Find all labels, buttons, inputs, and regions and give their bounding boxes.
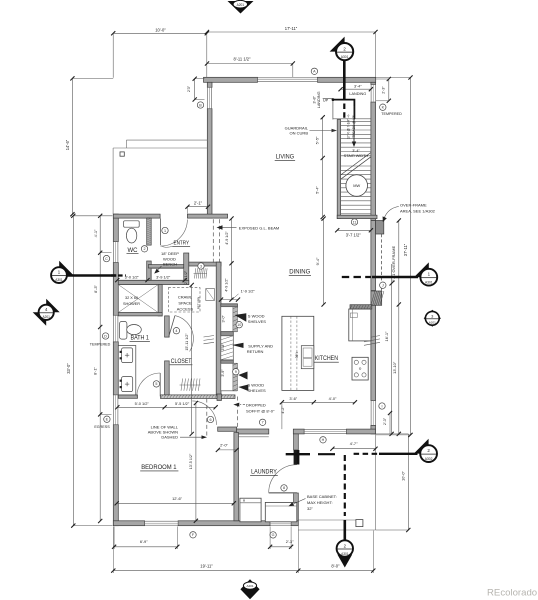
window F: bedroom bottom y-wall x145-178 (145, 521, 179, 525)
svg-text:G: G (272, 533, 275, 537)
window C: left wall y242-262 (114, 242, 118, 263)
svg-text:A201: A201 (42, 315, 50, 319)
svg-text:ACCESS: ACCESS (177, 306, 194, 311)
wall: bath bottom y=395 (118, 395, 137, 398)
svg-text:5: 5 (155, 382, 157, 386)
grid bubble F (190, 532, 196, 538)
wall: stair bottom y=215 (337, 215, 377, 218)
door bubble 4 (173, 328, 179, 334)
window: top wall living x257-317 (258, 78, 318, 82)
svg-text:4: 4 (175, 329, 177, 333)
svg-text:C: C (105, 257, 108, 261)
svg-text:36"±: 36"± (295, 352, 299, 359)
chase separator wall 2 (221, 360, 234, 363)
door bubble 5 (153, 381, 159, 387)
svg-text:DASHED: DASHED (161, 435, 178, 440)
door bubble 6 (207, 416, 213, 422)
svg-text:RETURN: RETURN (197, 297, 201, 310)
svg-text:3'-8": 3'-8" (312, 95, 316, 103)
svg-text:A301: A301 (55, 278, 63, 282)
svg-text:6: 6 (209, 418, 211, 422)
fixture: bath toilet (120, 322, 127, 340)
svg-text:SHELVES: SHELVES (248, 319, 266, 324)
return duct at chase (206, 289, 215, 301)
wall: WC top right seg + entry stub (187, 214, 227, 218)
svg-text:CRAWL: CRAWL (178, 294, 193, 299)
stair landing outline (323, 98, 333, 100)
svg-text:12'-6": 12'-6" (172, 496, 183, 501)
stair treads upper flight (341, 120, 371, 122)
svg-text:ON CURB: ON CURB (290, 130, 309, 135)
fixture: shower 32x60 with X (118, 285, 158, 313)
dim column chase x=231 (231, 219, 233, 300)
section marker 2/A301 bottom (337, 555, 352, 568)
svg-text:32 X 60: 32 X 60 (125, 296, 138, 300)
svg-text:17 R @ 7-1/4" +/-: 17 R @ 7-1/4" +/- (347, 114, 351, 139)
dim line: 8'-11 1/2 top (207, 63, 293, 65)
svg-text:TREADS @ 12": TREADS @ 12" (352, 115, 356, 138)
svg-text:SPACE: SPACE (178, 300, 192, 305)
wall: bench y=265 (148, 265, 183, 268)
wall: laundry top y=427 (218, 427, 237, 431)
dim column left x=100 (99, 216, 101, 521)
window D tempered: left wall y315-342 (114, 315, 118, 342)
exposed GL beam dashed pair (212, 219, 214, 263)
grid bubble D (102, 333, 108, 339)
svg-text:OVER-FRAME: OVER-FRAME (400, 202, 427, 207)
door 6: bedroom door (192, 401, 216, 425)
fixture: bath vanity counter (118, 346, 136, 395)
svg-text:8: 8 (283, 486, 285, 490)
svg-text:TEMPERED: TEMPERED (381, 112, 402, 116)
wall: bottom exterior y=521 (113, 521, 144, 526)
door bubble 1 (162, 227, 168, 233)
wall: bench vertical x=184 (184, 253, 189, 285)
svg-text:1'-9 1/2": 1'-9 1/2" (241, 289, 256, 294)
grid bubble I (379, 403, 385, 409)
svg-text:8'-3": 8'-3" (93, 285, 98, 293)
stair direction arrow (353, 106, 355, 143)
grid bubble G (270, 532, 276, 538)
elevation marker 5/A201 top (228, 1, 254, 14)
dim: 13'-5 1/2 bedroom vertical (195, 403, 197, 521)
over-frame dashed outer line (380, 234, 382, 291)
shelf unit upper (221, 307, 237, 332)
svg-text:SHELVES: SHELVES (248, 388, 266, 393)
svg-text:LAUNDRY: LAUNDRY (251, 469, 277, 476)
svg-text:CLOSET: CLOSET (171, 358, 192, 365)
wall: top exterior (living/stair), y=77 with window gap (204, 77, 258, 82)
over-frame corner block (376, 221, 384, 235)
bubble 11 (351, 219, 357, 225)
svg-text:17'-11": 17'-11" (285, 26, 298, 31)
svg-text:13'-10": 13'-10" (392, 361, 397, 374)
grid bubble J (380, 282, 386, 288)
svg-text:2: 2 (143, 247, 145, 251)
svg-text:6'-9": 6'-9" (140, 539, 148, 544)
section line 2/A302 laundry jog (286, 453, 310, 455)
svg-text:4'-7": 4'-7" (350, 441, 358, 446)
elevation marker 4/A201 left (46, 299, 60, 313)
porch post square (356, 520, 363, 527)
bubble 10 (236, 322, 242, 328)
dim: 2'-3 rotated right wall top (388, 79, 390, 101)
fixture: vanity sink 1 (122, 348, 133, 363)
svg-text:DINING: DINING (289, 268, 310, 275)
svg-text:2'-0": 2'-0" (220, 442, 228, 447)
grid bubble A (311, 68, 317, 74)
dim: 5'-5 and 5'-4 stair left (322, 117, 324, 217)
kitchen counter / fridge right (349, 309, 371, 341)
dim: 3'-7 1/2 below stairs (337, 229, 371, 231)
door bubble 2 (141, 246, 147, 252)
washer (240, 498, 261, 522)
svg-text:5'-5 1/2": 5'-5 1/2" (175, 401, 190, 406)
window J hatched: right wall y291-305 (371, 291, 382, 305)
chase top cap wall (221, 304, 238, 308)
svg-text:A302: A302 (425, 457, 433, 461)
crawl space access dashed box (168, 288, 200, 312)
dimension tick marks (70, 30, 412, 573)
guardrail on curb thick rail (332, 98, 335, 101)
svg-text:LANDING: LANDING (317, 91, 321, 108)
svg-text:WOOD: WOOD (163, 256, 176, 261)
svg-text:MW: MW (353, 183, 360, 188)
dim: 2'-3 right near window I (389, 413, 391, 434)
svg-text:2'-3": 2'-3" (286, 539, 294, 544)
wall: bath-closet x=165 upper (165, 316, 170, 337)
svg-text:3'-0": 3'-0" (222, 314, 226, 322)
svg-text:4'-2": 4'-2" (281, 406, 285, 414)
line of wall above dashed (bedroom) (206, 399, 208, 438)
svg-text:BEDROOM 1: BEDROOM 1 (141, 464, 177, 471)
svg-text:A301: A301 (341, 55, 349, 59)
island sink (301, 346, 314, 369)
dim: 15'-11 1/2 rotated closet (191, 285, 193, 434)
door 1: entry swing (159, 219, 161, 246)
laundry base cabinet (265, 502, 297, 521)
section marker 1/A301 left (59, 261, 73, 275)
svg-text:3'-9 1/2": 3'-9 1/2" (156, 274, 171, 279)
door bubble 3 (198, 263, 204, 269)
svg-text:WC: WC (128, 247, 139, 254)
wall: kitchen bottom exterior y=429 (293, 429, 304, 434)
wall: WC/hall bottom y=280 (118, 281, 189, 285)
svg-text:BATH 1: BATH 1 (131, 335, 150, 342)
svg-text:4'-0": 4'-0" (329, 396, 337, 401)
svg-text:9: 9 (235, 370, 237, 374)
kitchen island (282, 316, 314, 390)
dropped soffit dashed boundary (237, 397, 239, 430)
svg-text:2'3": 2'3" (187, 85, 191, 92)
svg-text:16'-1": 16'-1" (384, 331, 389, 342)
svg-text:SOFFIT @ 8'-0": SOFFIT @ 8'-0" (246, 408, 275, 413)
wall: WC right x=147 (147, 218, 152, 245)
roofline upper-left notch (126, 139, 207, 141)
svg-text:REcolorado: REcolorado (487, 588, 537, 599)
section line 2/A302 right (379, 453, 418, 455)
wall: central vertical x=216 (216, 262, 221, 398)
wall: closet bottom y=395 hatched (161, 395, 236, 399)
svg-text:LANDING: LANDING (349, 92, 366, 96)
svg-text:2'-3": 2'-3" (383, 417, 387, 425)
svg-text:A301: A301 (425, 280, 433, 284)
note: EXPOSED G.L. BEAM (217, 225, 223, 229)
section marker 2/A302 (414, 439, 429, 454)
svg-text:A201: A201 (246, 584, 253, 588)
svg-text:4'-9 1/2": 4'-9 1/2" (225, 231, 229, 245)
svg-text:10: 10 (237, 323, 241, 327)
fixture: WC toilet tank (124, 221, 140, 227)
svg-text:3'-9": 3'-9" (221, 369, 225, 377)
section marker 1/A301 right (414, 262, 429, 277)
svg-text:7: 7 (262, 421, 264, 425)
dim: 8'-11 over-frame right (398, 221, 400, 434)
wall: WC right lower segment x=147 (147, 261, 152, 281)
svg-text:15'-11 1/2": 15'-11 1/2" (185, 333, 189, 351)
svg-text:3'-0 1/2": 3'-0 1/2" (125, 274, 140, 279)
svg-text:2'-3": 2'-3" (381, 86, 385, 94)
wall: laundry right x=294 (294, 434, 299, 450)
svg-text:SUPPLY AND: SUPPLY AND (248, 343, 273, 348)
svg-text:3: 3 (200, 264, 202, 268)
window K tempered: right wall top y84-102 (371, 85, 375, 103)
svg-text:I: I (381, 404, 382, 408)
wall: entry vertical exterior x=207 (207, 82, 212, 87)
vent hash marks kitchen wall (364, 336, 380, 339)
wall: left exterior x=113 (113, 214, 118, 242)
svg-text:LIVING: LIVING (276, 153, 294, 160)
svg-text:BASE CABINET:: BASE CABINET: (307, 494, 337, 499)
svg-text:S WOOD: S WOOD (248, 314, 265, 319)
svg-text:A201: A201 (429, 321, 436, 325)
window B: entry wall y87-109 (208, 87, 212, 108)
svg-text:D: D (104, 334, 107, 338)
stair treads lower flight (341, 165, 371, 167)
dim: 37'-11 right overall (410, 78, 412, 435)
door 8: laundry door (269, 492, 297, 494)
svg-text:13'-5 1/2": 13'-5 1/2" (189, 453, 193, 469)
section line 2/A301 top (343, 61, 346, 101)
wall: WC top y=214 left seg (113, 214, 160, 218)
svg-text:10'-0": 10'-0" (401, 470, 406, 481)
window E egress: left wall y395-425 (114, 395, 118, 425)
wall: stair left x=337 (337, 120, 340, 219)
porch outline bottom right (375, 434, 377, 530)
dim: 9'-4 dining (323, 219, 325, 305)
grid bubble E (104, 416, 110, 422)
svg-text:A301: A301 (341, 552, 349, 556)
wall: shower right x=158 (158, 285, 162, 316)
fixture: vanity sink 2 (122, 377, 133, 392)
svg-text:EXPOSED G.L. BEAM: EXPOSED G.L. BEAM (239, 225, 279, 230)
svg-text:18" DEEP: 18" DEEP (161, 251, 179, 256)
svg-text:14'-6": 14'-6" (65, 139, 70, 150)
wall: right exterior mid (over-frame zone) x=371 (371, 221, 376, 291)
MW circle (mech) (346, 175, 368, 197)
fixture: WC toilet bowl (126, 228, 136, 243)
svg-text:9'-4": 9'-4" (315, 257, 320, 265)
chase separator wall 1 (221, 332, 234, 336)
svg-text:RETURN: RETURN (247, 349, 264, 354)
dim: 10'-0 porch right (407, 434, 409, 530)
svg-text:3'-4": 3'-4" (354, 85, 362, 89)
door bubble 7 (259, 419, 265, 425)
svg-text:2'-1": 2'-1" (194, 200, 203, 205)
door 5: bath door (159, 373, 161, 396)
svg-text:BENCH: BENCH (163, 262, 177, 267)
bench rectangle 18in deep (151, 269, 184, 281)
supply/return unit (221, 336, 234, 360)
svg-text:UP: UP (323, 99, 329, 103)
wall: right exterior upper x=371 (371, 82, 376, 84)
svg-text:11: 11 (353, 220, 357, 224)
wall: closet top y=262 (189, 262, 221, 266)
shelf unit lower (221, 363, 237, 391)
dim: 16'-1 right (391, 264, 393, 434)
grid bubble K (380, 104, 386, 110)
grid bubble B (197, 102, 203, 108)
dim line: 17'-11 top (207, 31, 376, 33)
window G: laundry bottom wall x270-291 (270, 521, 291, 525)
svg-text:H: H (322, 438, 325, 442)
svg-text:5'-5": 5'-5" (315, 136, 320, 144)
wall: shower bottom / bath top y=312 (118, 313, 162, 316)
svg-text:19'-11": 19'-11" (200, 563, 213, 568)
vent hash marks closet right (204, 336, 215, 338)
section line 2/A301 bottom (343, 520, 346, 541)
svg-text:ENTRY: ENTRY (174, 241, 190, 247)
svg-text:10'-0": 10'-0" (155, 27, 166, 32)
svg-text:MAX HEIGHT:: MAX HEIGHT: (307, 500, 333, 505)
svg-text:32": 32" (307, 506, 313, 511)
svg-text:4'-1": 4'-1" (93, 229, 98, 237)
small post square upper-left (120, 152, 124, 156)
svg-text:2'-3 1/2": 2'-3 1/2" (184, 270, 188, 284)
dim: 2'-1 entry opening (188, 206, 209, 208)
wall: central wall end block (217, 394, 221, 401)
section line 1/A301 left (67, 274, 116, 276)
svg-text:5'-0 1/2": 5'-0 1/2" (135, 401, 150, 406)
svg-text:8'-11 1/2": 8'-11 1/2" (234, 57, 251, 62)
door bubble 8 (281, 485, 287, 491)
svg-text:J: J (382, 284, 384, 288)
backsplash hatched band (350, 305, 372, 309)
stove with burners (352, 357, 368, 380)
svg-text:3'-6": 3'-6" (289, 396, 297, 401)
svg-text:3'-4": 3'-4" (352, 149, 360, 153)
svg-text:DROPPED: DROPPED (246, 402, 266, 407)
svg-text:3'-7 1/2": 3'-7 1/2" (346, 233, 362, 238)
svg-text:8'-1": 8'-1" (93, 367, 98, 375)
window I: right wall y401-425 (371, 401, 375, 426)
wall: laundry left x=234 (234, 433, 239, 521)
wall: right exterior lower x=371 (371, 305, 376, 400)
svg-text:A201: A201 (237, 3, 245, 7)
section line 1/A301 right (372, 276, 418, 278)
svg-text:SHOWER: SHOWER (123, 302, 140, 306)
section marker 2/A301 top (330, 37, 345, 52)
svg-text:EGRESS: EGRESS (94, 425, 110, 429)
coat closet hang marks near (3) (194, 273, 208, 275)
svg-text:KITCHEN: KITCHEN (315, 355, 338, 362)
elevation marker 3/A201 bottom (240, 579, 259, 599)
svg-text:1: 1 (164, 229, 166, 233)
svg-text:33'-0": 33'-0" (66, 363, 71, 374)
svg-text:4'-9 1/2": 4'-9 1/2" (224, 278, 228, 292)
stair break diagonal (341, 153, 371, 176)
dim: 14'-6 left upper (71, 78, 73, 214)
door 4: closet door (169, 316, 175, 337)
svg-text:3'-8": 3'-8" (221, 343, 225, 351)
svg-text:5'-4": 5'-4" (315, 186, 320, 194)
grid bubble C (103, 255, 109, 261)
svg-text:AREA, SEE 1/A302: AREA, SEE 1/A302 (400, 208, 436, 213)
dim: 2'3 rotated left of entry wall (194, 79, 196, 100)
svg-text:S WOOD: S WOOD (248, 383, 265, 388)
svg-text:8'-0": 8'-0" (331, 563, 340, 568)
dim: 33'-0 left overall (72, 216, 74, 526)
window H: kitchen bottom wall x304-346 (304, 430, 346, 434)
elevation marker 3/A201 right (424, 310, 441, 327)
svg-text:STAIR WIDTH: STAIR WIDTH (344, 154, 369, 158)
dim: 4'-2 island (281, 402, 283, 429)
closet hanging rod marks (180, 384, 201, 386)
svg-text:37'-11": 37'-11" (403, 243, 408, 256)
grid bubble H (320, 437, 326, 443)
wall: bath-closet x=165 lower (165, 361, 170, 398)
dim line: 10'-0 top (113, 32, 207, 34)
bubble 9 (233, 369, 239, 375)
